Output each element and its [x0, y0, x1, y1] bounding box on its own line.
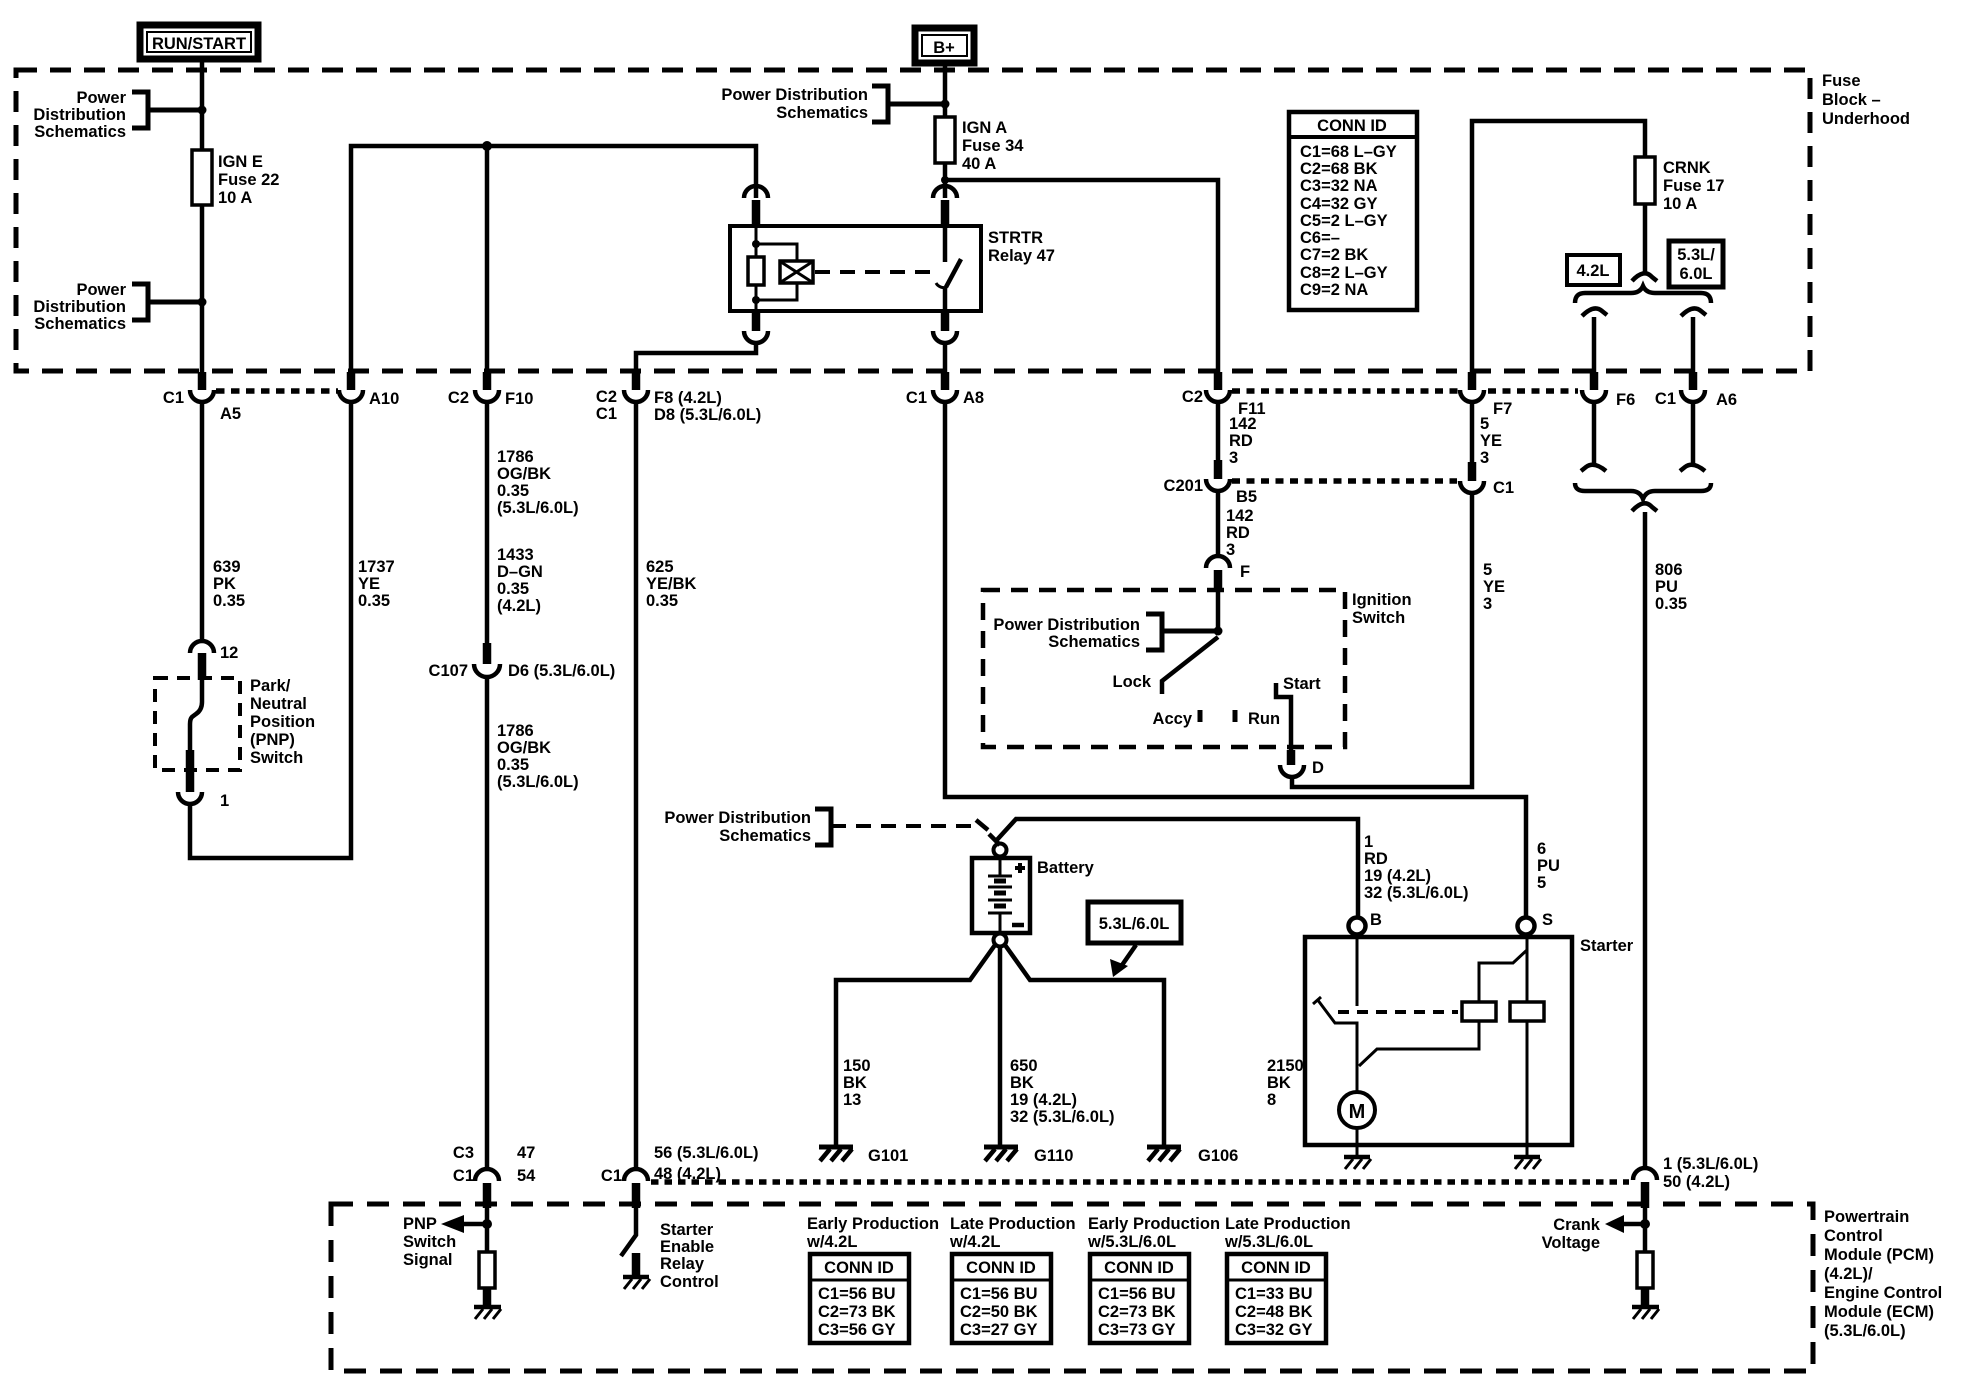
svg-text:Lock: Lock [1112, 673, 1151, 691]
wire IGN A fuse to relay and F11 branch [943, 163, 948, 198]
svg-text:C1: C1 [906, 389, 927, 407]
starter solenoid hold-in winding [1510, 950, 1544, 1156]
svg-text:C4=32 GY: C4=32 GY [1300, 195, 1378, 213]
svg-text:Control: Control [1824, 1227, 1883, 1245]
label 5.3L/6.0L with arrow [1088, 902, 1181, 977]
label Fuse Block Underhood [1822, 72, 1910, 128]
wire 5 YE 3 upper label [1472, 402, 1502, 467]
svg-text:Signal: Signal [403, 1251, 453, 1269]
svg-text:C2: C2 [596, 388, 617, 406]
svg-text:RD: RD [1229, 432, 1253, 450]
svg-text:40 A: 40 A [962, 155, 996, 173]
svg-text:C1: C1 [453, 1167, 474, 1185]
svg-text:Neutral: Neutral [250, 695, 307, 713]
resistor in PCM PNP input [479, 1252, 495, 1306]
fuse block underhood boundary [16, 70, 1810, 371]
option arc left top [1582, 308, 1607, 316]
svg-text:C6=–: C6=– [1300, 229, 1340, 247]
PNP switch blade [190, 680, 202, 750]
harness tie line F11 to F7 to F6 [1232, 388, 1578, 394]
wire 1786 OG/BK 0.35 (5.3L/6.0L) lower [487, 677, 579, 1170]
svg-text:C1: C1 [1655, 390, 1676, 408]
svg-text:1 (5.3L/6.0L): 1 (5.3L/6.0L) [1663, 1155, 1758, 1173]
svg-text:1737: 1737 [358, 558, 395, 576]
svg-text:C2: C2 [448, 389, 469, 407]
PCM connector face dotted line [651, 1179, 1629, 1185]
svg-text:1786: 1786 [497, 448, 534, 466]
connector 12 at PNP switch [190, 641, 238, 680]
power distribution schematics reference top-left 1 [33, 89, 206, 141]
svg-text:6: 6 [1537, 840, 1546, 858]
svg-text:C3=56 GY: C3=56 GY [818, 1321, 896, 1339]
svg-text:Fuse: Fuse [1822, 72, 1861, 90]
starter terminal S [1518, 911, 1554, 935]
svg-text:(4.2L): (4.2L) [497, 597, 541, 615]
PCM boundary [331, 1204, 1813, 1371]
svg-text:4.2L: 4.2L [1576, 262, 1609, 280]
svg-text:Early Production: Early Production [1088, 1215, 1220, 1233]
svg-text:3: 3 [1229, 449, 1238, 467]
svg-text:C2: C2 [1182, 388, 1203, 406]
ground G106 [1147, 1147, 1238, 1165]
wire IGN E fuse to connector A5 [200, 205, 205, 372]
svg-text:STRTR: STRTR [988, 229, 1043, 247]
relay connector bottom-left [744, 311, 768, 343]
svg-text:1: 1 [1364, 833, 1373, 851]
svg-text:56 (5.3L/6.0L): 56 (5.3L/6.0L) [654, 1144, 759, 1162]
connector C2 F11 [1182, 372, 1266, 418]
wire 150 BK 13 to G101 [836, 945, 995, 1146]
relay STRTR Relay 47 box [730, 226, 1055, 311]
conn id table top [1289, 112, 1417, 310]
svg-text:47: 47 [517, 1144, 535, 1162]
wire 5 YE 3 from D to C1 [1292, 495, 1472, 787]
wire relay to connector A8 [943, 343, 948, 372]
svg-text:150: 150 [843, 1057, 871, 1075]
svg-text:Power Distribution: Power Distribution [664, 809, 811, 827]
svg-text:C2=48 BK: C2=48 BK [1235, 1303, 1313, 1321]
svg-text:OG/BK: OG/BK [497, 739, 551, 757]
wire 1786 OG/BK 0.35 (5.3L/6.0L) upper label [487, 402, 579, 643]
svg-text:(4.2L)/: (4.2L)/ [1824, 1265, 1873, 1283]
svg-text:Voltage: Voltage [1542, 1234, 1600, 1252]
label Early Production w/5.3L/6.0L [1087, 1215, 1220, 1251]
svg-text:2150: 2150 [1267, 1057, 1304, 1075]
svg-text:CONN ID: CONN ID [1317, 117, 1387, 135]
label B+ [915, 28, 974, 63]
ground starter solenoid [1514, 1157, 1541, 1169]
svg-text:1786: 1786 [497, 722, 534, 740]
power distribution schematics reference inside ignition switch [993, 614, 1222, 651]
svg-text:B: B [1370, 911, 1382, 929]
svg-text:G110: G110 [1034, 1147, 1073, 1165]
svg-text:C1: C1 [601, 1167, 622, 1185]
svg-text:Late Production: Late Production [950, 1215, 1076, 1233]
wire CRNK fuse to option split [1643, 204, 1648, 275]
svg-text:w/4.2L: w/4.2L [949, 1233, 1000, 1251]
starter solenoid dashed link [1338, 1010, 1458, 1014]
svg-text:Power Distribution: Power Distribution [993, 616, 1140, 634]
svg-text:10 A: 10 A [218, 189, 252, 207]
wire 650 BK to G110 [1000, 946, 1115, 1146]
svg-text:Schematics: Schematics [719, 827, 811, 845]
svg-text:Park/: Park/ [250, 677, 291, 695]
svg-text:A5: A5 [220, 405, 241, 423]
wire B+ to IGN A fuse [943, 63, 948, 117]
power distribution schematics reference top-left 2 [33, 281, 206, 333]
svg-text:Underhood: Underhood [1822, 110, 1910, 128]
battery positive terminal [994, 844, 1007, 857]
relay coil X box [756, 244, 813, 300]
svg-text:Module (PCM): Module (PCM) [1824, 1246, 1934, 1264]
label Early Production w/4.2L [806, 1215, 939, 1251]
svg-text:C1=56 BU: C1=56 BU [818, 1285, 896, 1303]
harness tie line B5 to C1 [1232, 478, 1457, 484]
relay switch blade [936, 226, 961, 311]
svg-text:54: 54 [517, 1167, 536, 1185]
svg-text:Power: Power [76, 281, 126, 299]
svg-text:IGN E: IGN E [218, 153, 263, 171]
svg-text:CONN ID: CONN ID [1104, 1259, 1174, 1277]
svg-text:(5.3L/6.0L): (5.3L/6.0L) [497, 499, 579, 517]
conn id table early 4.2L [810, 1254, 909, 1343]
option splice arc below CRNK [1632, 273, 1657, 281]
ignition switch dashed box [983, 590, 1345, 747]
svg-text:10 A: 10 A [1663, 195, 1697, 213]
svg-text:Starter: Starter [1580, 937, 1634, 955]
svg-text:C8=2 L–GY: C8=2 L–GY [1300, 264, 1388, 282]
starter motor M [1339, 1092, 1375, 1156]
svg-text:B5: B5 [1236, 488, 1257, 506]
wire 142 RD 3 upper [1218, 402, 1257, 467]
relay connector top-left [744, 186, 768, 226]
svg-text:C1: C1 [163, 389, 184, 407]
svg-text:C2=50 BK: C2=50 BK [960, 1303, 1038, 1321]
svg-text:C1=56 BU: C1=56 BU [1098, 1285, 1176, 1303]
connector C2 F10 [448, 372, 534, 408]
svg-text:YE: YE [358, 575, 380, 593]
svg-text:C3: C3 [453, 1144, 474, 1162]
ignition switch wire from F [1216, 592, 1221, 631]
svg-text:A6: A6 [1716, 391, 1737, 409]
wire 806 PU 0.35 [1645, 512, 1687, 1170]
connector C3/C1 47/54 PNP signal [453, 1144, 536, 1208]
svg-text:M: M [1349, 1101, 1366, 1123]
svg-text:C1=68 L–GY: C1=68 L–GY [1300, 143, 1397, 161]
battery negative terminal [994, 934, 1007, 947]
label Ignition Switch [1352, 591, 1412, 627]
svg-text:PU: PU [1537, 857, 1560, 875]
wire F6 down [1592, 402, 1597, 465]
svg-text:BK: BK [1267, 1074, 1291, 1092]
svg-text:0.35: 0.35 [497, 756, 529, 774]
svg-text:5: 5 [1480, 415, 1489, 433]
svg-text:32 (5.3L/6.0L): 32 (5.3L/6.0L) [1010, 1108, 1115, 1126]
wire 639 PK 0.35 [202, 402, 245, 642]
crank voltage arrow [1542, 1208, 1650, 1252]
ground starter enable driver [623, 1277, 650, 1289]
svg-text:B+: B+ [933, 39, 955, 57]
option arc left bottom [1581, 465, 1606, 471]
svg-text:50 (4.2L): 50 (4.2L) [1663, 1173, 1730, 1191]
svg-text:G101: G101 [868, 1147, 908, 1165]
svg-text:Schematics: Schematics [1048, 633, 1140, 651]
wire fuse block top run to CRNK fuse [1472, 121, 1645, 372]
svg-text:YE: YE [1483, 578, 1505, 596]
Accy position tick [1153, 710, 1200, 728]
svg-text:w/4.2L: w/4.2L [806, 1233, 857, 1251]
option arc right bottom [1680, 465, 1705, 471]
svg-text:Fuse 22: Fuse 22 [218, 171, 279, 189]
wire relay to connector F8 [636, 343, 756, 372]
label RUN/START [140, 25, 258, 59]
label 4.2L [1567, 255, 1620, 285]
Start position bracket [1276, 675, 1321, 750]
ground G110 [984, 1147, 1073, 1165]
svg-text:F8 (4.2L): F8 (4.2L) [654, 389, 722, 407]
svg-text:C1: C1 [596, 405, 617, 423]
Run position tick [1235, 710, 1280, 728]
svg-text:Fuse 34: Fuse 34 [962, 137, 1024, 155]
svg-text:5: 5 [1483, 561, 1492, 579]
svg-text:625: 625 [646, 558, 674, 576]
svg-text:S: S [1542, 911, 1553, 929]
svg-text:32 (5.3L/6.0L): 32 (5.3L/6.0L) [1364, 884, 1469, 902]
svg-text:C2=73 BK: C2=73 BK [818, 1303, 896, 1321]
svg-text:w/5.3L/6.0L: w/5.3L/6.0L [1224, 1233, 1313, 1251]
svg-text:Battery: Battery [1037, 859, 1095, 877]
svg-text:YE: YE [1480, 432, 1502, 450]
relay connector bottom-right [933, 311, 957, 343]
svg-text:(5.3L/6.0L): (5.3L/6.0L) [497, 773, 579, 791]
svg-text:OG/BK: OG/BK [497, 465, 551, 483]
starter solenoid switch blade [1313, 935, 1357, 1092]
svg-text:19 (4.2L): 19 (4.2L) [1010, 1091, 1077, 1109]
power distribution schematics reference at battery [664, 809, 1000, 845]
svg-text:C107: C107 [429, 662, 468, 680]
svg-text:RUN/START: RUN/START [152, 35, 246, 53]
svg-text:Relay: Relay [660, 1255, 705, 1273]
svg-text:IGN A: IGN A [962, 119, 1007, 137]
svg-text:12: 12 [220, 644, 238, 662]
label Late Production w/5.3L/6.0L [1224, 1215, 1351, 1251]
svg-text:0.35: 0.35 [213, 592, 245, 610]
svg-text:Enable: Enable [660, 1238, 714, 1256]
svg-text:F7: F7 [1493, 400, 1512, 418]
label Powertrain Control Module [1824, 1208, 1942, 1340]
svg-text:F10: F10 [505, 390, 533, 408]
label 5.3L/6.0L [1669, 241, 1723, 287]
connector C1 A6 [1655, 372, 1737, 409]
connector C1 A8 [906, 372, 984, 407]
connector C201 B5 [1164, 460, 1258, 506]
svg-text:48 (4.2L): 48 (4.2L) [654, 1165, 721, 1183]
fuse IGN A Fuse 34 40 A [935, 117, 1024, 173]
connector F7 [1460, 372, 1512, 418]
svg-text:Late Production: Late Production [1225, 1215, 1351, 1233]
svg-text:Switch: Switch [403, 1233, 456, 1251]
svg-text:C7=2 BK: C7=2 BK [1300, 246, 1368, 264]
svg-text:Distribution: Distribution [33, 106, 126, 124]
relay connector top-right [933, 186, 957, 226]
svg-text:C1: C1 [1493, 479, 1514, 497]
svg-text:G106: G106 [1198, 1147, 1238, 1165]
wire bus inside fuse block to relay [351, 146, 756, 372]
svg-text:0.35: 0.35 [1655, 595, 1687, 613]
svg-text:Switch: Switch [1352, 609, 1405, 627]
PNP switch signal arrow [403, 1208, 492, 1269]
svg-text:C5=2 L–GY: C5=2 L–GY [1300, 212, 1388, 230]
relay coil resistor [748, 226, 764, 311]
svg-text:CRNK: CRNK [1663, 159, 1711, 177]
wire A8 down to starter S with 6 PU 5 [945, 402, 1560, 917]
wire A6 down [1691, 402, 1696, 465]
svg-text:PK: PK [213, 575, 236, 593]
svg-text:C2=73 BK: C2=73 BK [1098, 1303, 1176, 1321]
svg-text:0.35: 0.35 [646, 592, 678, 610]
svg-text:C1=56 BU: C1=56 BU [960, 1285, 1038, 1303]
connector C1 A5 [163, 372, 241, 423]
ground PCM PNP [474, 1307, 501, 1319]
svg-text:Schematics: Schematics [34, 315, 126, 333]
svg-text:RD: RD [1364, 850, 1388, 868]
starter solenoid pull-in winding [1359, 935, 1527, 1066]
svg-text:6.0L: 6.0L [1679, 265, 1712, 283]
upper option brace [1575, 286, 1711, 303]
connector C1 below F7 [1460, 462, 1514, 497]
battery [972, 857, 1095, 934]
wire F6 branch [1592, 317, 1597, 372]
svg-text:1433: 1433 [497, 546, 534, 564]
svg-text:C2=68 BK: C2=68 BK [1300, 160, 1378, 178]
wire 625 YE/BK 0.35 [636, 402, 697, 1170]
svg-text:YE/BK: YE/BK [646, 575, 697, 593]
fuse IGN E Fuse 22 10 A [192, 150, 279, 207]
connector C2/C1 F8/D8 [596, 372, 761, 424]
relay actuation dashed link [815, 270, 932, 274]
svg-text:0.35: 0.35 [497, 482, 529, 500]
svg-text:Start: Start [1283, 675, 1321, 693]
wire F10 drop inside fuse block [485, 146, 490, 372]
svg-text:Block –: Block – [1822, 91, 1881, 109]
ground starter motor [1344, 1157, 1371, 1169]
svg-text:Control: Control [660, 1273, 719, 1291]
connector A10 [339, 372, 399, 408]
wire 1433 D-GN 0.35 (4.2L) label [497, 546, 543, 615]
svg-text:C3=73 GY: C3=73 GY [1098, 1321, 1176, 1339]
svg-text:Starter: Starter [660, 1221, 714, 1239]
svg-text:1: 1 [220, 792, 229, 810]
svg-text:19 (4.2L): 19 (4.2L) [1364, 867, 1431, 885]
svg-text:3: 3 [1483, 595, 1492, 613]
svg-text:Distribution: Distribution [33, 298, 126, 316]
svg-text:142: 142 [1226, 507, 1254, 525]
svg-text:(PNP): (PNP) [250, 731, 295, 749]
svg-text:0.35: 0.35 [358, 592, 390, 610]
wire 1737 YE 0.35 label [358, 558, 395, 610]
svg-text:w/5.3L/6.0L: w/5.3L/6.0L [1087, 1233, 1176, 1251]
svg-text:A10: A10 [369, 390, 399, 408]
svg-text:CONN ID: CONN ID [966, 1259, 1036, 1277]
option splice arc below lower brace [1632, 503, 1657, 511]
svg-text:F: F [1240, 563, 1250, 581]
svg-text:Schematics: Schematics [776, 104, 868, 122]
wire RUN/START to IGN E fuse [200, 59, 205, 150]
svg-text:5.3L/: 5.3L/ [1677, 246, 1715, 264]
svg-text:BK: BK [843, 1074, 867, 1092]
svg-text:D: D [1312, 759, 1324, 777]
wire A6 branch [1691, 317, 1696, 372]
ground G101 [819, 1147, 908, 1165]
svg-text:Ignition: Ignition [1352, 591, 1412, 609]
starter enable relay control driver [621, 1208, 719, 1291]
svg-text:Early Production: Early Production [807, 1215, 939, 1233]
svg-text:Run: Run [1248, 710, 1280, 728]
svg-text:PU: PU [1655, 578, 1678, 596]
svg-text:(5.3L/6.0L): (5.3L/6.0L) [1824, 1322, 1906, 1340]
lower option brace [1575, 483, 1711, 499]
harness tie line A5 to A10 [216, 388, 338, 394]
svg-text:C3=32 NA: C3=32 NA [1300, 177, 1378, 195]
conn id table early 5.3L [1090, 1254, 1189, 1343]
svg-text:806: 806 [1655, 561, 1683, 579]
connector F6 [1582, 372, 1635, 409]
connector C1 starter enable [601, 1144, 759, 1208]
svg-text:650: 650 [1010, 1057, 1038, 1075]
svg-text:A8: A8 [963, 389, 984, 407]
svg-text:13: 13 [843, 1091, 861, 1109]
svg-text:D6 (5.3L/6.0L): D6 (5.3L/6.0L) [508, 662, 615, 680]
svg-text:D–GN: D–GN [497, 563, 543, 581]
svg-text:Position: Position [250, 713, 315, 731]
svg-text:C201: C201 [1164, 477, 1203, 495]
svg-text:0.35: 0.35 [497, 580, 529, 598]
resistor in PCM crank input [1637, 1252, 1653, 1306]
svg-text:Engine Control: Engine Control [1824, 1284, 1942, 1302]
label Late Production w/4.2L [949, 1215, 1076, 1251]
svg-text:Accy: Accy [1153, 710, 1193, 728]
ground PCM crank [1632, 1307, 1659, 1319]
svg-text:Relay 47: Relay 47 [988, 247, 1055, 265]
svg-text:5: 5 [1537, 874, 1546, 892]
option arc right top [1681, 308, 1706, 316]
svg-text:Crank: Crank [1553, 1216, 1601, 1234]
svg-text:Power Distribution: Power Distribution [721, 86, 868, 104]
svg-text:8: 8 [1267, 1091, 1276, 1109]
starter terminal B [1349, 911, 1383, 935]
power distribution schematics reference at B+ [721, 86, 949, 122]
connector C107 D6 [429, 643, 616, 680]
label Park/Neutral Position (PNP) Switch [250, 677, 315, 767]
wire PNP pin1 to A10 [190, 404, 351, 858]
svg-text:142: 142 [1229, 415, 1257, 433]
connector 1/50 crank voltage [1633, 1155, 1758, 1208]
svg-text:C9=2 NA: C9=2 NA [1300, 281, 1368, 299]
svg-text:PNP: PNP [403, 1215, 437, 1233]
connector F at ignition switch [1206, 556, 1250, 592]
svg-text:CONN ID: CONN ID [1241, 1259, 1311, 1277]
svg-text:3: 3 [1480, 449, 1489, 467]
starter box [1305, 937, 1634, 1145]
conn id table late 5.3L [1227, 1254, 1326, 1343]
PNP switch dashed box [155, 678, 240, 770]
svg-text:D8 (5.3L/6.0L): D8 (5.3L/6.0L) [654, 406, 761, 424]
svg-text:BK: BK [1010, 1074, 1034, 1092]
junction node at F10 branch [482, 141, 492, 151]
ignition switch lever to Lock [1112, 637, 1218, 694]
connector 1 at PNP switch [178, 750, 229, 810]
svg-text:Power: Power [76, 89, 126, 107]
